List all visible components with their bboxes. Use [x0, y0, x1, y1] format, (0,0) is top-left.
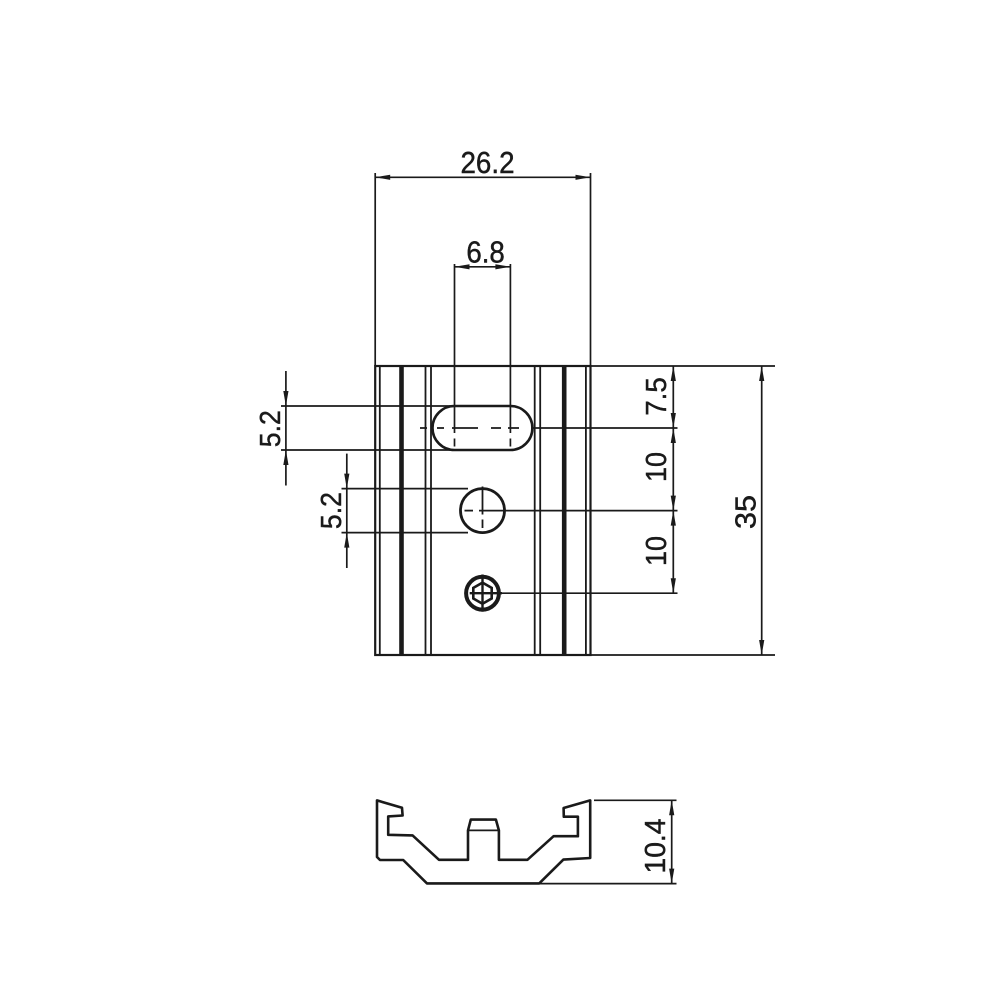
fin line left thin 2 [425, 366, 427, 655]
svg-text:5.2: 5.2 [316, 492, 348, 529]
slot centerline solid extension to right dimension [531, 427, 678, 429]
svg-text:10.4: 10.4 [640, 819, 672, 874]
fin line right thin 2 [539, 366, 541, 655]
svg-text:5.2: 5.2 [255, 410, 287, 447]
svg-text:10: 10 [641, 452, 673, 482]
screw cross vertical [481, 575, 483, 612]
dimension 26.2 extension lines [374, 173, 376, 366]
dimension 10.4 extension lines [594, 799, 677, 801]
fin line right thick [562, 366, 567, 655]
profile stud chamfer line [468, 829, 499, 831]
dimension 5.2 hole: extension lines [342, 488, 469, 490]
round hole vertical centerline [482, 487, 484, 515]
round hole [461, 489, 505, 533]
dimension 5.2 slot: dim line and outside arrows [285, 406, 287, 450]
dimension 35 line [761, 366, 763, 655]
slot (obround hole) [433, 406, 533, 450]
dimension 5.2 slot: extension lines [281, 405, 455, 407]
round hole centerline extension to right dimension [479, 510, 678, 512]
round hole horizontal centerline dash [465, 510, 474, 512]
slot centerline dashed [420, 427, 531, 429]
heatsink body outline (top view) [375, 366, 590, 655]
screw cross horizontal + extension to right dimension [470, 592, 502, 594]
dimension 5.2 hole: dim line and outside arrows [346, 489, 348, 533]
fin line left thin 3 [430, 366, 432, 655]
slot left arc center mark [454, 264, 456, 433]
bottom edge extension line to right [591, 654, 776, 656]
fin line right thin 3 [534, 366, 536, 655]
dimension 26.2 line [375, 176, 590, 178]
screw hexagon [473, 583, 491, 604]
svg-text:26.2: 26.2 [461, 145, 515, 180]
slot right arc center mark [509, 264, 511, 433]
svg-text:7.5: 7.5 [641, 377, 673, 416]
profile view outline (bottom section) [377, 800, 590, 883]
fin line left thick [399, 366, 404, 655]
fin line left thin 1 [379, 366, 381, 655]
dimension 10.4 line [671, 800, 673, 883]
svg-text:35: 35 [731, 495, 763, 529]
dimension 6.8 line [455, 266, 511, 268]
dimension chain 7.5/10/10 line [672, 366, 674, 593]
screw head symbol [466, 577, 499, 610]
svg-text:6.8: 6.8 [466, 235, 505, 270]
top edge extension line to right [591, 365, 776, 367]
svg-text:10: 10 [641, 536, 673, 566]
fin line right thin 1 [585, 366, 587, 655]
